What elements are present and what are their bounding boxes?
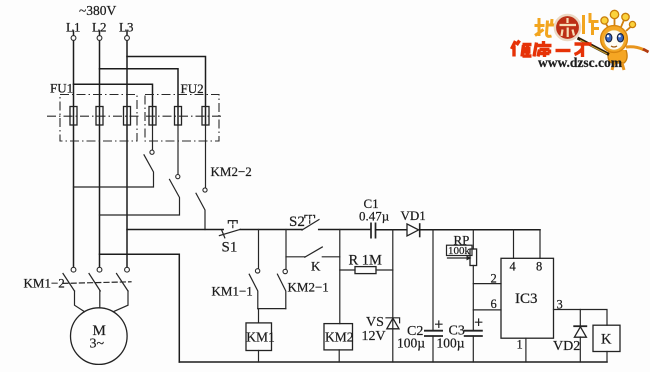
mascot eyes <box>606 34 612 42</box>
logo char pian <box>584 13 600 35</box>
diode VD2 bar <box>573 325 587 327</box>
fuse FU2 a <box>149 107 156 126</box>
svg-text:KM2: KM2 <box>325 330 354 345</box>
contact KM2-2 pole1 blade and return wire to L1 <box>74 155 154 187</box>
svg-text:1: 1 <box>517 338 523 352</box>
wire VD1 to pin8 corner <box>420 229 540 231</box>
contact KM1-1 circle <box>255 269 259 273</box>
resistor R body <box>355 267 376 274</box>
wire phase L1 vertical <box>73 31 75 267</box>
chain line through FU2 fuses <box>146 115 224 117</box>
mascot rod magnifier handle <box>578 38 610 55</box>
wire junction B down to KM2-1 <box>285 230 287 270</box>
switch S1 actuator T <box>228 221 237 223</box>
capacitor C3 plates <box>464 331 483 336</box>
switch S2 blade <box>302 220 319 230</box>
wire KM1 coil to rail <box>258 351 260 363</box>
wire L2 to control bottom rail <box>100 254 180 362</box>
svg-text:KM2−1: KM2−1 <box>288 280 329 295</box>
fuse FU1 a <box>70 107 77 126</box>
fuse FU2 c <box>202 107 209 126</box>
wire phase L3 vertical <box>126 31 128 267</box>
wire motor lead 3 <box>113 291 128 312</box>
logo magnifier lens <box>555 15 580 40</box>
svg-text:6: 6 <box>491 297 497 311</box>
fuse FU2 b <box>175 107 182 126</box>
wire to resistor R <box>340 269 355 271</box>
switch S1 tick <box>222 230 225 237</box>
wire L2 branch to FU2 fuse2 <box>100 69 179 125</box>
svg-text:12V: 12V <box>362 329 386 344</box>
wire C1 to VD1 <box>376 229 407 231</box>
fuse FU1 c <box>124 107 131 126</box>
contact KM1-2 pole3 circle <box>125 267 130 272</box>
wire L1 branch to FU2 fuse1 <box>74 84 153 125</box>
svg-text:FU2: FU2 <box>181 81 204 96</box>
mascot antenna stalks <box>606 18 631 31</box>
capacitor C1 plates <box>371 223 376 239</box>
svg-text:K: K <box>601 332 612 348</box>
fuse-box FU2 enclosure <box>145 95 219 142</box>
mascot head <box>601 26 628 53</box>
switch S2 actuator T dashed <box>305 215 315 225</box>
terminal L3 <box>125 36 130 41</box>
potentiometer RP wiper arrow <box>448 257 467 259</box>
svg-text:S2: S2 <box>289 214 305 230</box>
contact KM2-2 pole1 feed wire <box>152 125 154 150</box>
zener VS bar <box>386 318 400 323</box>
wire IC3 pin8 <box>539 230 541 258</box>
mascot legs <box>612 63 624 70</box>
svg-text:100µ: 100µ <box>437 336 465 351</box>
svg-text:K: K <box>311 259 321 274</box>
control wire from L3 to S1 <box>127 229 223 231</box>
plus sign C2 <box>436 321 442 327</box>
label 100k boxed <box>447 245 473 255</box>
wire phase L2 vertical <box>99 31 101 267</box>
wire L3 branch to FU2 fuse3 <box>127 57 206 126</box>
svg-text:KM1−2: KM1−2 <box>24 276 65 291</box>
contact KM2-1 circle <box>283 269 287 273</box>
watermark logo group <box>512 10 649 70</box>
contact KM1-1 blade <box>249 274 258 308</box>
svg-text:2: 2 <box>491 272 497 286</box>
contact KM1-2 pole1 blade <box>63 274 75 292</box>
wire to KM1 coil <box>258 309 260 323</box>
svg-text:3~: 3~ <box>90 337 105 352</box>
terminal L1 <box>71 36 76 41</box>
svg-text:www.dzsc.com: www.dzsc.com <box>538 55 623 70</box>
svg-text:L3: L3 <box>119 20 133 35</box>
contact KM1-2 pole1 circle <box>71 267 76 272</box>
wire C2 branch <box>432 230 434 362</box>
capacitor C2 plates <box>424 331 443 336</box>
svg-text:VD1: VD1 <box>401 208 426 223</box>
wire VS branch <box>392 230 394 362</box>
contact KM1-2 pole2 blade <box>89 274 100 292</box>
logo char xin in magnifier <box>560 18 577 37</box>
logo red text wei ku yi xia <box>512 41 592 58</box>
wire IC3 pin6 <box>473 309 501 311</box>
contact KM1-2 pole2 circle <box>97 267 102 272</box>
mascot right arm <box>626 47 644 50</box>
wire S2 to C1 <box>319 229 371 231</box>
wire junction C down to KM2 coil <box>339 230 341 324</box>
switch S1 blade <box>219 229 240 235</box>
contact KM2-2 pole2 circle <box>176 175 180 179</box>
contact KM2-2 pole2 blade and return wire to L2 <box>100 179 180 215</box>
wire KM2 coil to rail <box>338 350 340 362</box>
bottom rail <box>179 361 607 363</box>
contact K blade <box>305 247 323 257</box>
linkage dashed KM1-2 <box>63 282 131 284</box>
relay K box <box>593 325 620 351</box>
svg-text:VS: VS <box>366 315 384 330</box>
contact KM2-2 pole3 blade down to control wire <box>196 193 205 229</box>
chain line through FU1 fuses <box>47 115 140 117</box>
contact KM2-2 pole3 circle <box>203 188 207 192</box>
svg-text:KM1−1: KM1−1 <box>212 284 253 299</box>
wire RP to C3 <box>472 266 474 363</box>
svg-text:VD2: VD2 <box>553 339 580 354</box>
contact KM2-2 pole1 circle <box>150 150 154 154</box>
zener VS triangle <box>387 318 399 329</box>
potentiometer RP feed <box>472 230 474 249</box>
wire IC3 pin3 to relay K <box>554 310 608 326</box>
logo char zhao <box>535 18 555 36</box>
svg-text:3: 3 <box>557 298 563 312</box>
svg-text:~380V: ~380V <box>79 3 117 18</box>
diode VD1 <box>407 224 419 236</box>
mascot body <box>608 50 627 63</box>
contact K branch wire <box>286 256 305 258</box>
terminal L2 <box>97 36 102 41</box>
fuse-box FU1 enclosure <box>60 95 137 142</box>
motor M <box>71 308 128 365</box>
wire joining contact bottoms <box>258 308 286 310</box>
potentiometer RP body <box>470 249 477 266</box>
svg-text:S1: S1 <box>222 240 238 256</box>
coil KM2 <box>324 324 353 350</box>
contact K right wire <box>322 256 340 258</box>
svg-text:100k: 100k <box>448 245 471 257</box>
wire junction A down to KM1-1 <box>258 230 260 269</box>
wire IC3 pin1 to rail <box>525 338 527 362</box>
wire R to VS line <box>376 269 393 271</box>
coil KM1 <box>246 323 272 351</box>
svg-text:100µ: 100µ <box>397 336 425 351</box>
wire S1 to S2 <box>240 229 302 231</box>
wire motor lead 1 <box>75 291 85 312</box>
svg-text:8: 8 <box>536 260 542 274</box>
svg-text:0.47µ: 0.47µ <box>359 209 390 224</box>
mascot mouth <box>611 46 617 47</box>
svg-text:KM2−2: KM2−2 <box>211 164 252 179</box>
contact KM2-2 pole2 feed wire <box>177 125 179 174</box>
diode VD2 triangle <box>574 327 586 337</box>
contact KM2-1 blade <box>277 274 285 308</box>
plus sign C3 <box>475 319 481 325</box>
mascot antenna balls <box>601 17 608 24</box>
svg-text:4: 4 <box>510 260 517 274</box>
relay K box to rail <box>606 352 608 363</box>
svg-text:FU1: FU1 <box>50 81 73 96</box>
fuse FU1 b <box>96 107 103 126</box>
diode VD2 wire <box>579 310 581 363</box>
IC3 box <box>501 258 554 338</box>
wire motor lead 2 <box>99 291 101 308</box>
contact KM2-2 pole3 feed wire <box>205 125 207 188</box>
wire IC3 pin4 <box>513 230 515 258</box>
contact KM1-2 pole3 blade <box>117 274 129 292</box>
wire IC3 pin2 <box>473 283 501 285</box>
switch S1 actuator stem dashed <box>232 222 234 230</box>
svg-text:IC3: IC3 <box>515 291 538 307</box>
svg-text:KM1: KM1 <box>246 330 275 345</box>
